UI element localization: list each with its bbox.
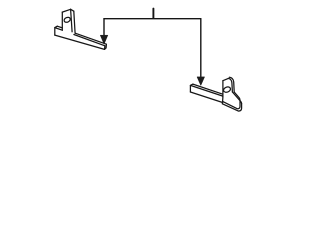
left clip: strip top-front edge (right segment) (74, 35, 105, 46)
left clip: tab top thickness edge (71, 9, 74, 11)
leader right vertical wire (200, 19, 202, 79)
left clip: tab left edge (61, 12, 63, 30)
right clip: strip top-front edge (190, 85, 222, 96)
right clip: tab hole (223, 86, 232, 93)
left clip part (55, 9, 107, 49)
right clip part (190, 77, 241, 111)
right clip: tab top-right rounded corner and right edge (228, 78, 232, 92)
right clip: strip bottom edge (190, 92, 222, 103)
left clip: strip top-back edge (left segment) (57, 26, 62, 28)
left clip: strip bottom edge (55, 35, 105, 49)
right arrowhead (197, 77, 205, 86)
right clip: foot left connector (221, 97, 224, 104)
right clip: tab top edge (223, 78, 228, 80)
right clip: step outer edge (232, 92, 241, 104)
callout label 1 (tick) (152, 9, 154, 18)
right clip: tab left edge (222, 81, 224, 97)
right clip: foot inner thickness line (223, 92, 240, 109)
left clip: tab back-right edge (74, 11, 75, 33)
left clip: strip top-back edge (right segment) (76, 33, 107, 44)
right clip: foot outer right and bottom edge (222, 104, 241, 111)
left clip: tab hole (63, 16, 71, 23)
left clip: tab front-right edge (71, 9, 73, 32)
left arrowhead (100, 35, 108, 44)
right clip: tab back thickness curve (229, 77, 234, 92)
left clip: right end face (105, 44, 107, 49)
leader horizontal line (104, 18, 201, 20)
right clip: left end face (190, 84, 193, 92)
left clip: tab top edge (62, 9, 70, 12)
left clip: strip top-front edge (left segment) (55, 28, 63, 31)
left clip: left end face (55, 26, 58, 35)
right clip: strip top-back edge (193, 84, 223, 94)
leader left vertical wire (103, 19, 105, 38)
